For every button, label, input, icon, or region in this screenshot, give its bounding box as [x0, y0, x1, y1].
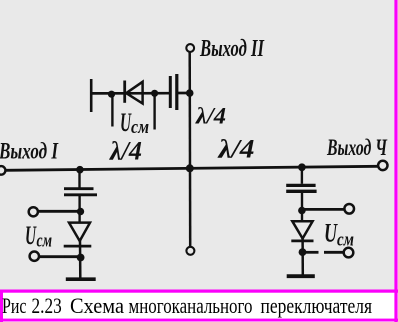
- svg-text:U: U: [324, 219, 338, 248]
- svg-text:Выход Ч: Выход Ч: [326, 135, 387, 160]
- svg-text:λ/4: λ/4: [109, 137, 142, 166]
- svg-text:многоканального: многоканального: [129, 293, 253, 318]
- svg-text:λ/4: λ/4: [195, 103, 226, 128]
- svg-text:см: см: [131, 117, 149, 138]
- svg-text:см: см: [37, 231, 53, 252]
- svg-text:2.23: 2.23: [32, 293, 62, 318]
- svg-text:U: U: [120, 108, 132, 137]
- svg-text:λ/4: λ/4: [217, 134, 254, 163]
- svg-text:Выход II: Выход II: [199, 36, 265, 62]
- svg-text:см: см: [337, 230, 354, 251]
- svg-text:Рис: Рис: [2, 293, 27, 318]
- svg-text:Выход I: Выход I: [0, 138, 59, 163]
- svg-text:переключателя: переключателя: [261, 293, 373, 318]
- svg-text:U: U: [25, 221, 37, 250]
- svg-text:Схема: Схема: [70, 293, 124, 318]
